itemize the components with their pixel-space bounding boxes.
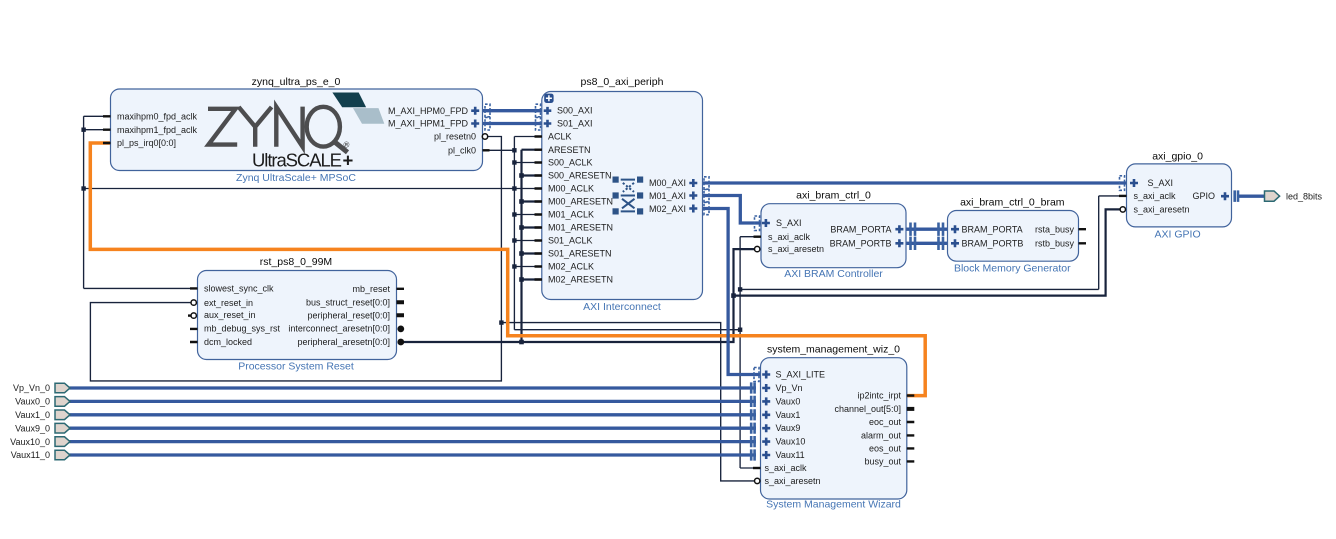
wire orange interrupt net ip2intc_irpt to pl_ps_irq0 [90,143,925,396]
svg-text:BRAM_PORTA: BRAM_PORTA [962,224,1023,234]
svg-text:system_management_wiz_0: system_management_wiz_0 [767,344,900,356]
block axi_bram_ctrl_0_bram Block Memory Generator U5 [948,197,1079,275]
svg-text:M00_ARESETN: M00_ARESETN [548,197,613,207]
svg-text:S_AXI: S_AXI [776,218,802,228]
svg-text:UltraSCALE: UltraSCALE [252,150,342,171]
wire bus GPIO to led_8bits [1238,195,1265,198]
svg-text:ACLK: ACLK [548,132,572,142]
junction pl_resetn0 net [499,320,503,324]
svg-text:zynq_ultra_ps_e_0: zynq_ultra_ps_e_0 [252,76,341,88]
svg-text:axi_bram_ctrl_0_bram: axi_bram_ctrl_0_bram [960,197,1065,209]
wire bus Vaux11_0 [70,453,757,456]
interface stubs interconnect M00/M01/M02 right [704,177,709,215]
wire bus M_AXI_HPM1_FPD to S01_AXI [483,122,542,125]
svg-text:mb_debug_sys_rst: mb_debug_sys_rst [204,324,281,334]
svg-text:pl_clk0: pl_clk0 [448,145,476,155]
svg-text:M01_ACLK: M01_ACLK [548,210,594,220]
svg-text:rsta_busy: rsta_busy [1035,224,1075,234]
svg-text:M01_AXI: M01_AXI [649,191,686,201]
svg-text:M02_ARESETN: M02_ARESETN [548,275,613,285]
svg-text:M_AXI_HPM0_FPD: M_AXI_HPM0_FPD [388,106,469,116]
block zynq_ultra_ps_e_0 Zynq UltraScale+ MPSoC U1 [111,76,483,184]
interface stubs zynq M_AXI buses [485,104,541,130]
svg-text:AXI GPIO: AXI GPIO [1155,229,1201,241]
svg-text:M00_AXI: M00_AXI [649,178,686,188]
svg-text:M01_ARESETN: M01_ARESETN [548,223,613,233]
svg-text:Zynq UltraScale+ MPSoC: Zynq UltraScale+ MPSoC [236,172,356,184]
svg-text:axi_gpio_0: axi_gpio_0 [1152,151,1203,163]
wire bus Vaux0_0 [70,400,757,403]
svg-text:s_axi_aresetn: s_axi_aresetn [1134,204,1190,214]
svg-text:interconnect_aresetn[0:0]: interconnect_aresetn[0:0] [288,324,390,334]
svg-text:Vaux9: Vaux9 [776,423,801,433]
svg-text:Vaux10_0: Vaux10_0 [10,437,50,447]
pin stubs zynq right: pl_resetn0 bubble and pl_clk0 [482,134,489,151]
svg-text:S_AXI_LITE: S_AXI_LITE [776,370,826,380]
svg-text:Vaux9_0: Vaux9_0 [15,423,50,433]
svg-text:led_8bits: led_8bits [1286,192,1323,202]
svg-text:s_axi_aclk: s_axi_aclk [1134,191,1177,201]
wire bus M01_AXI to axi_bram_ctrl S_AXI [703,196,762,224]
wire bus M00_AXI to axi_gpio S_AXI [703,181,1127,184]
block axi_gpio_0 AXI GPIO U6 [1127,151,1232,241]
svg-text:M_AXI_HPM1_FPD: M_AXI_HPM1_FPD [388,119,469,129]
wire bus Vaux9_0 [70,427,757,430]
wire peripheral_aresetn net (vector) [402,150,1121,342]
svg-text:BRAM_PORTB: BRAM_PORTB [830,238,892,248]
svg-text:Vaux1_0: Vaux1_0 [15,410,50,420]
svg-text:axi_bram_ctrl_0: axi_bram_ctrl_0 [796,190,871,202]
svg-text:busy_out: busy_out [864,456,901,466]
svg-text:Vp_Vn_0: Vp_Vn_0 [13,383,50,393]
svg-text:M02_ACLK: M02_ACLK [548,262,594,272]
pin stubs rst left [188,288,198,342]
svg-text:ip2intc_irpt: ip2intc_irpt [857,391,901,401]
svg-text:Block Memory Generator: Block Memory Generator [954,263,1071,275]
wire bus Vaux10_0 [70,440,757,443]
svg-text:M00_ACLK: M00_ACLK [548,184,594,194]
svg-text:aux_reset_in: aux_reset_in [204,310,256,320]
svg-text:GPIO: GPIO [1192,191,1215,201]
svg-text:Vaux11: Vaux11 [776,450,805,460]
svg-text:pl_resetn0: pl_resetn0 [434,132,476,142]
svg-text:+: + [343,150,354,171]
pin stubs sysmgmt right [907,396,915,462]
svg-text:peripheral_reset[0:0]: peripheral_reset[0:0] [307,310,390,320]
logo ZYNQ UltraScale+ inside U1 [208,107,348,153]
svg-text:s_axi_aresetn: s_axi_aresetn [765,476,821,486]
svg-text:bus_struct_reset[0:0]: bus_struct_reset[0:0] [306,297,390,307]
svg-text:S01_AXI: S01_AXI [557,119,593,129]
svg-text:S00_ARESETN: S00_ARESETN [548,171,612,181]
wire bus M02_AXI to sysmgmt S_AXI_LITE [703,209,761,375]
svg-text:slowest_sync_clk: slowest_sync_clk [204,284,274,294]
svg-text:eos_out: eos_out [869,443,902,453]
port Vaux0_0 external [15,397,70,407]
svg-text:maxihpm0_fpd_aclk: maxihpm0_fpd_aclk [117,112,198,122]
interface bars bram ctrl right and bram gen left [911,223,944,251]
svg-text:mb_reset: mb_reset [352,284,390,294]
icon crossbar router inside U2 [613,177,644,215]
svg-text:Vaux0_0: Vaux0_0 [15,397,50,407]
svg-text:BRAM_PORTB: BRAM_PORTB [962,238,1024,248]
wire bus Vaux1_0 [70,413,757,416]
svg-text:s_axi_aresetn: s_axi_aresetn [768,244,824,254]
block system_management_wiz_0 System Management Wizard U7 [761,344,907,511]
wire bus M_AXI_HPM0_FPD to S00_AXI [483,109,542,112]
wire bus Vp_Vn_0 [70,386,757,389]
svg-text:S00_ACLK: S00_ACLK [548,158,593,168]
svg-text:pl_ps_irq0[0:0]: pl_ps_irq0[0:0] [117,138,176,148]
svg-text:S_AXI: S_AXI [1148,178,1174,188]
wire bus BRAM_PORTB [906,242,947,245]
wire pl_resetn0 net to ext_reset_in and sysmgmt s_axi_aresetn [90,137,758,481]
svg-text:rstb_busy: rstb_busy [1035,238,1075,248]
svg-text:AXI BRAM Controller: AXI BRAM Controller [784,268,883,280]
svg-text:AXI Interconnect: AXI Interconnect [583,301,661,313]
block ps8_0_axi_periph AXI Interconnect U2 [542,76,703,313]
block axi_bram_ctrl_0 AXI BRAM Controller U4 [761,190,906,281]
port Vaux11_0 external [11,450,70,460]
svg-text:s_axi_aclk: s_axi_aclk [768,232,811,242]
pin stubs interconnect left scalar [535,137,543,280]
wire bus BRAM_PORTA [906,228,947,231]
svg-text:rst_ps8_0_99M: rst_ps8_0_99M [260,256,332,268]
svg-text:S01_ARESETN: S01_ARESETN [548,249,612,259]
svg-text:M02_AXI: M02_AXI [649,204,686,214]
svg-text:ps8_0_axi_periph: ps8_0_axi_periph [581,76,664,88]
svg-text:alarm_out: alarm_out [861,430,902,440]
wire clock net pl_clk0 trunk and branches [84,116,1127,468]
svg-text:Vp_Vn: Vp_Vn [776,383,803,393]
svg-text:eoc_out: eoc_out [869,417,902,427]
svg-text:dcm_locked: dcm_locked [204,337,252,347]
port Vaux9_0 external [15,423,70,433]
pin stubs gpio left [1119,176,1127,212]
svg-text:maxihpm1_fpd_aclk: maxihpm1_fpd_aclk [117,125,198,135]
pin stubs sysmgmt left [751,368,760,484]
svg-text:Vaux11_0: Vaux11_0 [11,450,50,460]
svg-text:S01_ACLK: S01_ACLK [548,236,593,246]
svg-text:ARESETN: ARESETN [548,145,591,155]
svg-text:Processor System Reset: Processor System Reset [238,361,354,373]
svg-text:BRAM_PORTA: BRAM_PORTA [830,224,891,234]
svg-text:®: ® [344,141,350,150]
port Vp_Vn_0 external [13,383,70,393]
svg-text:ext_reset_in: ext_reset_in [204,298,253,308]
svg-text:S00_AXI: S00_AXI [557,106,593,116]
pin stubs rst right [397,289,405,346]
interface bars gpio right [1235,190,1238,202]
pin stubs bram ctrl left [754,216,762,252]
port led_8bits external output [1265,191,1323,202]
svg-text:Vaux1: Vaux1 [776,410,801,420]
junction peripheral_aresetn net [519,173,736,344]
svg-text:channel_out[5:0]: channel_out[5:0] [834,404,901,414]
svg-text:peripheral_aresetn[0:0]: peripheral_aresetn[0:0] [297,337,390,347]
block rst_ps8_0_99M Processor System Reset U3 [198,256,397,373]
svg-text:System Management Wizard: System Management Wizard [766,499,901,511]
svg-text:Vaux0: Vaux0 [776,396,801,406]
port Vaux10_0 external [10,437,70,447]
svg-text:Vaux10: Vaux10 [776,437,806,447]
pin stubs bram gen right [1079,229,1087,243]
pin stubs zynq left [103,116,111,143]
svg-text:s_axi_aclk: s_axi_aclk [765,463,808,473]
port Vaux1_0 external [15,410,70,420]
junction clock net dots [81,128,742,332]
